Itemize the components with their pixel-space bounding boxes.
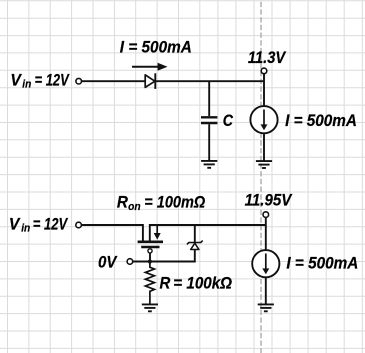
svg-text:C: C xyxy=(223,112,233,130)
current source I2 (bottom) xyxy=(252,250,279,277)
label Vin = 12V (bottom) xyxy=(9,216,68,235)
svg-text:11.95V: 11.95V xyxy=(245,192,293,210)
diode D1 xyxy=(145,73,155,89)
wire Vin to MOSFET drain xyxy=(82,225,143,241)
label Ron = 100mOhm xyxy=(117,194,206,214)
current arrow I (top) xyxy=(132,63,168,71)
svg-text:11.3V: 11.3V xyxy=(248,49,286,67)
svg-text:= 100mΩ: = 100mΩ xyxy=(144,194,205,212)
svg-text:on: on xyxy=(128,201,141,213)
terminal 0V xyxy=(127,259,133,265)
wire capacitor to ground xyxy=(208,124,210,161)
node terminal 11.95V xyxy=(263,212,269,218)
svg-text:= 12V: = 12V xyxy=(35,71,70,89)
transistor M1 gate bar xyxy=(141,246,159,249)
transistor M1 channel bar xyxy=(138,240,163,243)
svg-text:= 100kΩ: = 100kΩ xyxy=(173,274,232,292)
current source I1 (top) xyxy=(250,106,277,133)
wire capacitor branch xyxy=(208,81,210,116)
svg-text:R: R xyxy=(160,274,171,292)
capacitor C plates xyxy=(201,117,217,123)
wire node down to current source xyxy=(263,74,265,107)
terminal Vin (top) xyxy=(76,78,82,84)
wire diode cathode to node xyxy=(155,80,264,82)
dashed vertical reference line xyxy=(260,0,262,353)
wire zener cathode to output wire xyxy=(194,225,196,243)
node terminal 11.3V xyxy=(261,68,267,74)
svg-text:V: V xyxy=(10,71,22,89)
wire current source to ground (top) xyxy=(263,133,265,161)
svg-text:in: in xyxy=(21,223,30,235)
svg-text:V: V xyxy=(9,216,21,234)
junction gate/0V/resistor xyxy=(148,259,152,263)
svg-text:I = 500mA: I = 500mA xyxy=(120,38,192,56)
diode D2 (body diode, zener style) xyxy=(187,241,203,250)
svg-text:R: R xyxy=(117,194,128,212)
svg-text:I = 500mA: I = 500mA xyxy=(286,255,358,273)
wire 0V rail to zener branch xyxy=(133,250,195,262)
transistor M1 gate bubble xyxy=(148,249,152,253)
ground (R) xyxy=(142,304,158,311)
label Vin = 12V (top) xyxy=(10,71,69,90)
resistor R zigzag xyxy=(145,262,154,305)
ground (I2) xyxy=(258,304,274,311)
wire Vin to diode anode xyxy=(82,80,146,82)
terminal Vin (bottom) xyxy=(76,222,82,228)
ground (capacitor) xyxy=(201,161,217,168)
svg-text:in: in xyxy=(22,78,31,90)
ground (I1) xyxy=(256,161,272,168)
svg-text:I = 500mA: I = 500mA xyxy=(285,112,357,130)
wire current source to ground (bottom) xyxy=(265,277,267,304)
label R = 100kOhm xyxy=(160,274,233,292)
wire gate bubble down to 0V rail xyxy=(149,253,151,261)
wire node down to current source (bottom) xyxy=(265,217,267,250)
svg-text:= 12V: = 12V xyxy=(33,216,68,234)
wire MOSFET source to node xyxy=(150,225,266,241)
transistor M1 body arrow xyxy=(154,225,161,240)
svg-text:0V: 0V xyxy=(98,253,118,271)
